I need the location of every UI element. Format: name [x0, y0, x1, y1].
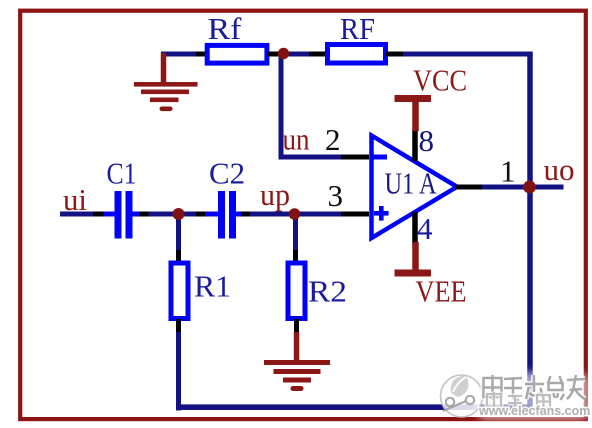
pin 2 stub	[341, 155, 369, 160]
wire to node A	[149, 212, 199, 217]
wire node A down to R1	[176, 212, 181, 253]
svg-text:U1 A: U1 A	[385, 166, 437, 201]
svg-text:VCC: VCC	[413, 63, 467, 98]
capacitor C1	[115, 191, 133, 239]
node A junction (C1/C2/R1)	[173, 208, 185, 220]
capacitor C2	[218, 191, 236, 239]
junction node Rf/RF/un	[278, 48, 289, 59]
wire R1 down to bottom return	[176, 332, 181, 411]
op-amp non-inverting marker (plus)	[374, 206, 389, 221]
pin 3 stub	[341, 212, 369, 217]
wire right vertical (output to feedback and bottom)	[527, 52, 533, 411]
wire between Rf junction and RF	[278, 52, 311, 57]
wire pin2 horizontal	[279, 155, 344, 160]
svg-text:2: 2	[325, 122, 341, 157]
svg-text:1: 1	[500, 154, 516, 189]
svg-text:C2: C2	[209, 156, 245, 191]
watermark glyph blobs	[484, 375, 586, 400]
svg-text:un: un	[283, 122, 310, 157]
wire input from ui	[60, 212, 95, 217]
pin 1 output stub	[455, 185, 484, 190]
pin stub left of C1	[93, 212, 105, 217]
svg-text:up: up	[260, 177, 290, 212]
resistor RF	[328, 45, 386, 64]
pin 4 stub	[412, 212, 418, 244]
pin stub bottom of R2	[294, 319, 299, 334]
pin stub right of C1	[139, 212, 150, 217]
pin stub bottom of R1	[176, 319, 181, 334]
wire pin stub left of RF	[309, 52, 326, 57]
pin stub right of C2	[240, 212, 253, 217]
pin stub top of R1	[176, 250, 181, 262]
wire pin stub left of Rf	[196, 52, 207, 57]
resistor Rf	[207, 45, 267, 63]
watermark second row glyph blobs	[487, 392, 550, 409]
svg-text:uo: uo	[544, 152, 575, 187]
svg-text:R1: R1	[194, 269, 231, 304]
watermark glyph blobs white glow	[484, 375, 586, 400]
wire into C2	[205, 212, 219, 217]
pin stub top of R2	[293, 250, 298, 262]
svg-text:RF: RF	[340, 11, 375, 46]
wire bottom return	[176, 404, 532, 410]
svg-text:Rf: Rf	[208, 11, 243, 46]
node up junction (C2/R2/pin3)	[289, 208, 301, 220]
capacitor C2 right lead	[235, 212, 241, 217]
wire vertical from junction to pin 2	[279, 52, 284, 160]
svg-text:www.elecfans.com: www.elecfans.com	[478, 404, 590, 418]
wire pin stub right of RF	[386, 52, 405, 57]
node uo junction	[523, 181, 536, 194]
wire output to uo	[482, 185, 564, 190]
wire pin stub right of Rf	[267, 52, 280, 57]
resistor R2	[288, 263, 305, 319]
svg-text:4: 4	[417, 211, 433, 246]
VCC power bar	[395, 95, 432, 131]
svg-text:3: 3	[328, 178, 344, 213]
wire into C1	[104, 212, 117, 217]
resistor R1	[171, 263, 188, 319]
pin stub left of C2	[196, 212, 207, 217]
ground symbol top-left	[134, 53, 198, 111]
op-amp U1A triangle	[372, 136, 458, 239]
svg-text:C1: C1	[107, 156, 137, 191]
pin 8 stub	[412, 129, 418, 161]
wire top feedback right segment	[403, 52, 533, 57]
ground symbol below R2	[264, 332, 330, 391]
wire node up down to R2	[293, 212, 298, 253]
wire top feedback left segment	[161, 52, 199, 57]
wire to node up	[250, 212, 343, 217]
svg-text:VEE: VEE	[416, 274, 467, 309]
op-amp inverting marker (minus)	[371, 155, 388, 160]
svg-text:8: 8	[419, 123, 435, 158]
wire out of C1	[131, 212, 140, 217]
svg-text:R2: R2	[308, 274, 347, 309]
VEE power bar	[395, 242, 432, 277]
watermark (decorative)	[441, 372, 591, 420]
